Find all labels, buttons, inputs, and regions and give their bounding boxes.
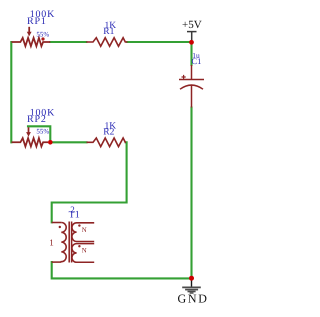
svg-text:GND: GND (178, 291, 209, 305)
svg-text:RP2: RP2 (27, 114, 47, 125)
svg-text:1: 1 (49, 237, 54, 247)
svg-text:N: N (82, 227, 87, 234)
svg-text:RP1: RP1 (27, 16, 47, 27)
svg-text:N: N (82, 247, 87, 254)
svg-text:T1: T1 (69, 210, 80, 221)
svg-text:R1: R1 (103, 27, 114, 37)
svg-text:C1: C1 (192, 56, 202, 66)
svg-text:55%: 55% (36, 127, 49, 135)
svg-text:R2: R2 (103, 128, 114, 138)
svg-text:55%: 55% (36, 31, 49, 39)
svg-text:+5V: +5V (182, 19, 202, 31)
